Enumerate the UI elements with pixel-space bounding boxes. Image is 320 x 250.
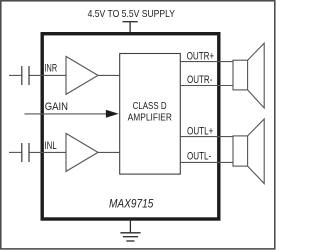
wire C2 to amp A2 bbox=[30, 151, 67, 153]
svg-text:INR: INR bbox=[45, 63, 58, 75]
capacitor C1 plates bbox=[21, 66, 23, 85]
svg-text:GAIN: GAIN bbox=[45, 101, 68, 113]
IC U1 MAX9715 outline box bbox=[42, 34, 219, 219]
wire A1 to block bbox=[98, 74, 120, 76]
op-amp A2 (left channel input amp) bbox=[66, 133, 98, 171]
wire C1 to amp A1 bbox=[30, 74, 67, 76]
block CLASS D AMPLIFIER bbox=[120, 54, 181, 175]
wire A2 to block bbox=[98, 151, 120, 153]
svg-text:CLASS D: CLASS D bbox=[133, 101, 167, 112]
capacitor C2 plates bbox=[21, 143, 23, 162]
svg-text:4.5V TO 5.5V SUPPLY: 4.5V TO 5.5V SUPPLY bbox=[88, 8, 175, 20]
svg-text:OUTR-: OUTR- bbox=[187, 74, 213, 86]
supply terminal tick bbox=[123, 21, 138, 23]
op-amp A1 (right channel input amp) bbox=[66, 56, 98, 94]
wire OUTL+ bbox=[180, 136, 233, 138]
wire OUTL- bbox=[180, 161, 233, 163]
svg-text:OUTR+: OUTR+ bbox=[187, 51, 215, 63]
wire supply to box bbox=[129, 22, 131, 34]
wire OUTR- bbox=[180, 85, 233, 87]
svg-text:OUTL-: OUTL- bbox=[187, 151, 211, 163]
svg-text:INL: INL bbox=[45, 140, 57, 152]
svg-text:OUTL+: OUTL+ bbox=[187, 126, 213, 138]
speaker SPK2 (left) bbox=[233, 119, 264, 184]
speaker SPK1 (right) bbox=[233, 43, 264, 108]
wire OUTR+ bbox=[180, 61, 233, 63]
capacitor C1 (INR input) lead left bbox=[9, 74, 21, 76]
arrowhead GAIN into block bbox=[106, 110, 119, 118]
capacitor C2 (INL input) lead left bbox=[9, 151, 21, 153]
svg-text:MAX9715: MAX9715 bbox=[109, 197, 154, 211]
ground bbox=[120, 219, 140, 241]
svg-text:AMPLIFIER: AMPLIFIER bbox=[128, 113, 172, 124]
wire GAIN bbox=[25, 113, 110, 115]
